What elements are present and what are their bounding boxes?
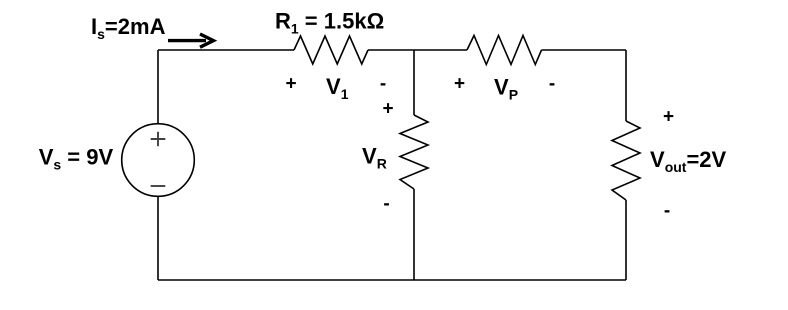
resistor R (VR, middle vertical) [400,115,428,189]
svg-text:VP: VP [494,75,518,103]
wire node B down to VR [413,50,415,115]
svg-text:-: - [380,74,386,95]
wire VR to bottom rail [413,189,415,280]
svg-text:+: + [454,74,465,95]
svg-text:+: + [663,107,674,128]
svg-text:V1: V1 [326,74,349,102]
svg-text:+: + [285,74,296,95]
resistor Vout (right vertical) [612,121,640,200]
current arrow Is [168,34,213,47]
wire top-left (node A to R1) [158,49,294,51]
svg-text:-: - [664,201,670,222]
svg-text:VR: VR [362,144,387,172]
wire Vout resistor to bottom rail [625,200,627,280]
wire node C down to Vout resistor [625,50,627,121]
source minus terminal mark [151,185,166,187]
wire bottom rail [158,279,626,281]
svg-text:-: - [383,194,389,215]
resistor P (VP) [467,36,542,65]
wire left branch top (node A down to source) [157,50,159,124]
wire left branch bottom (source to bottom rail) [157,196,159,280]
source plus terminal mark [151,132,166,147]
svg-text:R1 = 1.5kΩ: R1 = 1.5kΩ [275,9,384,37]
svg-text:Vout=2V: Vout=2V [650,147,727,175]
svg-text:Vs = 9V: Vs = 9V [39,145,114,173]
resistor R1 [294,36,368,64]
svg-text:+: + [382,99,393,120]
wire node B to VP resistor [414,49,467,51]
voltage source Vs [122,124,195,197]
wire VP to node C [542,49,627,51]
svg-text:-: - [549,74,555,95]
wire R1 to node B [368,49,414,51]
svg-text:Is=2mA: Is=2mA [91,14,166,42]
